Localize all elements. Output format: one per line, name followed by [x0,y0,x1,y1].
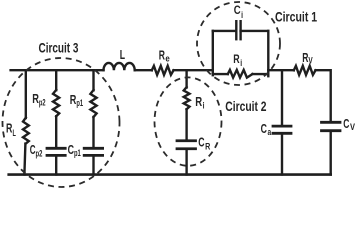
resistor Re [152,66,174,75]
wire Rp2 to Cp2 [55,116,57,147]
node junction Ca branch [281,70,283,125]
resistor RL [23,118,29,144]
circuit1 box top wire right [241,30,269,32]
capacitor CV top plate [322,121,341,124]
resistor Ri (circuit 2) [184,87,190,109]
svg-text:C: C [343,116,349,131]
resistor Rp2 [53,90,59,116]
capacitor CV bottom plate [322,129,341,132]
wire Cp1 to bottom rail [92,155,94,174]
node junction RL branch [25,70,27,118]
node junction Rp1 branch [92,70,94,90]
capacitor CR bottom plate [177,147,196,150]
capacitor Ca top plate [273,125,291,128]
wire CR to bottom rail [185,149,187,175]
circuit1 box top wire left [213,30,237,32]
svg-text:Circuit 2: Circuit 2 [225,99,266,114]
circuit1 box bottom wire right [253,73,269,75]
capacitor Cp2 top plate [47,147,65,150]
circuit1 box right side [267,31,269,76]
node junction Rp2 branch [55,70,57,90]
svg-text:p1: p1 [74,148,81,158]
svg-text:C: C [198,135,204,150]
svg-text:L: L [120,47,125,62]
circuit 1 dashed ellipse [197,2,280,85]
svg-text:R: R [233,52,239,66]
svg-text:L: L [13,128,17,138]
wire CV to bottom rail [330,131,332,175]
capacitor Cp1 top plate [84,147,102,150]
svg-text:V: V [308,55,312,65]
wire RL to bottom rail [24,144,25,175]
capacitor Cp2 bottom plate [47,154,65,157]
wire bottom rail [9,173,331,176]
svg-text:V: V [350,122,355,132]
svg-text:R: R [205,141,211,151]
circuit 3 dashed ellipse [0,56,121,189]
svg-text:R: R [6,121,12,136]
wire L to Re [135,69,152,71]
capacitor CR top plate [177,139,196,142]
svg-text:p2: p2 [39,97,46,107]
capacitor Cp1 bottom plate [84,154,102,157]
wire Ri to CR [185,109,187,141]
resistor Rp1 [90,90,96,117]
resistor Ri (circuit 1) [228,70,253,78]
svg-text:i: i [240,58,242,68]
svg-text:p2: p2 [36,148,43,158]
svg-text:R: R [32,91,39,106]
svg-text:p1: p1 [76,98,83,108]
circuit1 box left side [212,31,214,75]
svg-text:Circuit 3: Circuit 3 [39,41,79,56]
circuit 2 dashed ellipse [155,77,222,165]
capacitor Ci left plate [235,21,237,39]
wire rail circuit1 to RV [268,69,294,71]
circuit1 box bottom wire left [213,73,228,75]
svg-text:i: i [203,100,205,110]
capacitor Ca bottom plate [273,132,291,135]
wire Ca to bottom rail [281,133,283,174]
svg-text:R: R [195,94,202,109]
capacitor Ci right plate [239,21,241,39]
svg-text:a: a [268,127,272,137]
resistor RV [294,66,316,75]
wire RV to right corner down [316,70,331,121]
node junction circuit2 branch [185,70,187,87]
svg-text:i: i [241,10,243,20]
inductor L [104,63,135,70]
svg-text:Circuit 1: Circuit 1 [275,9,318,24]
svg-text:R: R [159,47,165,62]
wire Rp1 to Cp1 [92,117,94,147]
svg-text:e: e [165,53,169,63]
svg-text:C: C [234,3,241,17]
wire Cp2 to bottom rail [55,155,57,174]
svg-text:C: C [261,121,267,136]
wire top rail left segment [11,69,104,71]
wire Re to Circuit1 box [174,69,213,71]
